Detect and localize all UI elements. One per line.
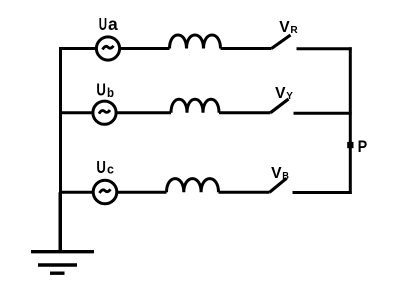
svg-text:c: c: [107, 161, 114, 176]
svg-text:V: V: [271, 165, 282, 182]
AC source Uc tilde: [100, 189, 111, 193]
ground bar 3: [50, 272, 65, 275]
wire: branch B switch to right bus: [293, 191, 352, 194]
switch VB blade: [270, 178, 287, 192]
wire: branch R inductor to switch: [221, 47, 272, 50]
svg-text:Y: Y: [286, 91, 293, 102]
wire: left bus vertical: [59, 47, 62, 251]
svg-text:a: a: [108, 14, 118, 34]
ground lead wire: [59, 192, 62, 251]
svg-text:U: U: [96, 157, 106, 177]
AC source Ub tilde: [99, 110, 110, 114]
svg-text:V: V: [275, 85, 286, 102]
node P dot: [347, 142, 353, 148]
switch VR blade: [272, 35, 291, 49]
inductor L3 (branch B): [167, 179, 219, 193]
wire: branch Y inductor to switch: [219, 111, 271, 114]
wire: branch R switch to right bus: [297, 47, 352, 50]
wire: branch B source to inductor: [116, 191, 167, 194]
wire: branch Y from bus to source Ub: [59, 111, 92, 114]
svg-text:V: V: [279, 19, 290, 36]
svg-text:P: P: [358, 137, 368, 156]
wire: branch Y switch to right bus: [294, 112, 352, 115]
ground bar 2: [38, 263, 77, 266]
ground bar 1: [31, 250, 94, 253]
switch VY blade: [271, 99, 289, 113]
AC source Ua circle: [96, 37, 119, 60]
wire: branch R source to inductor: [119, 47, 170, 50]
svg-text:b: b: [107, 85, 114, 100]
wire: branch B inductor to switch: [219, 191, 270, 194]
svg-text:U: U: [96, 80, 106, 100]
wire: branch B from bus to source Uc: [59, 191, 92, 194]
wire: branch R from bus to source Ua: [59, 47, 95, 50]
svg-text:U: U: [99, 14, 107, 34]
wire: right bus vertical: [349, 47, 352, 194]
svg-text:R: R: [290, 25, 298, 36]
AC source Uc circle: [93, 180, 117, 204]
AC source Ub circle: [93, 101, 116, 124]
wire: branch Y source to inductor: [116, 111, 171, 114]
inductor L1 (branch R): [170, 35, 221, 49]
svg-text:B: B: [282, 171, 289, 182]
AC source Ua tilde: [103, 46, 114, 50]
inductor L2 (branch Y): [171, 99, 219, 113]
